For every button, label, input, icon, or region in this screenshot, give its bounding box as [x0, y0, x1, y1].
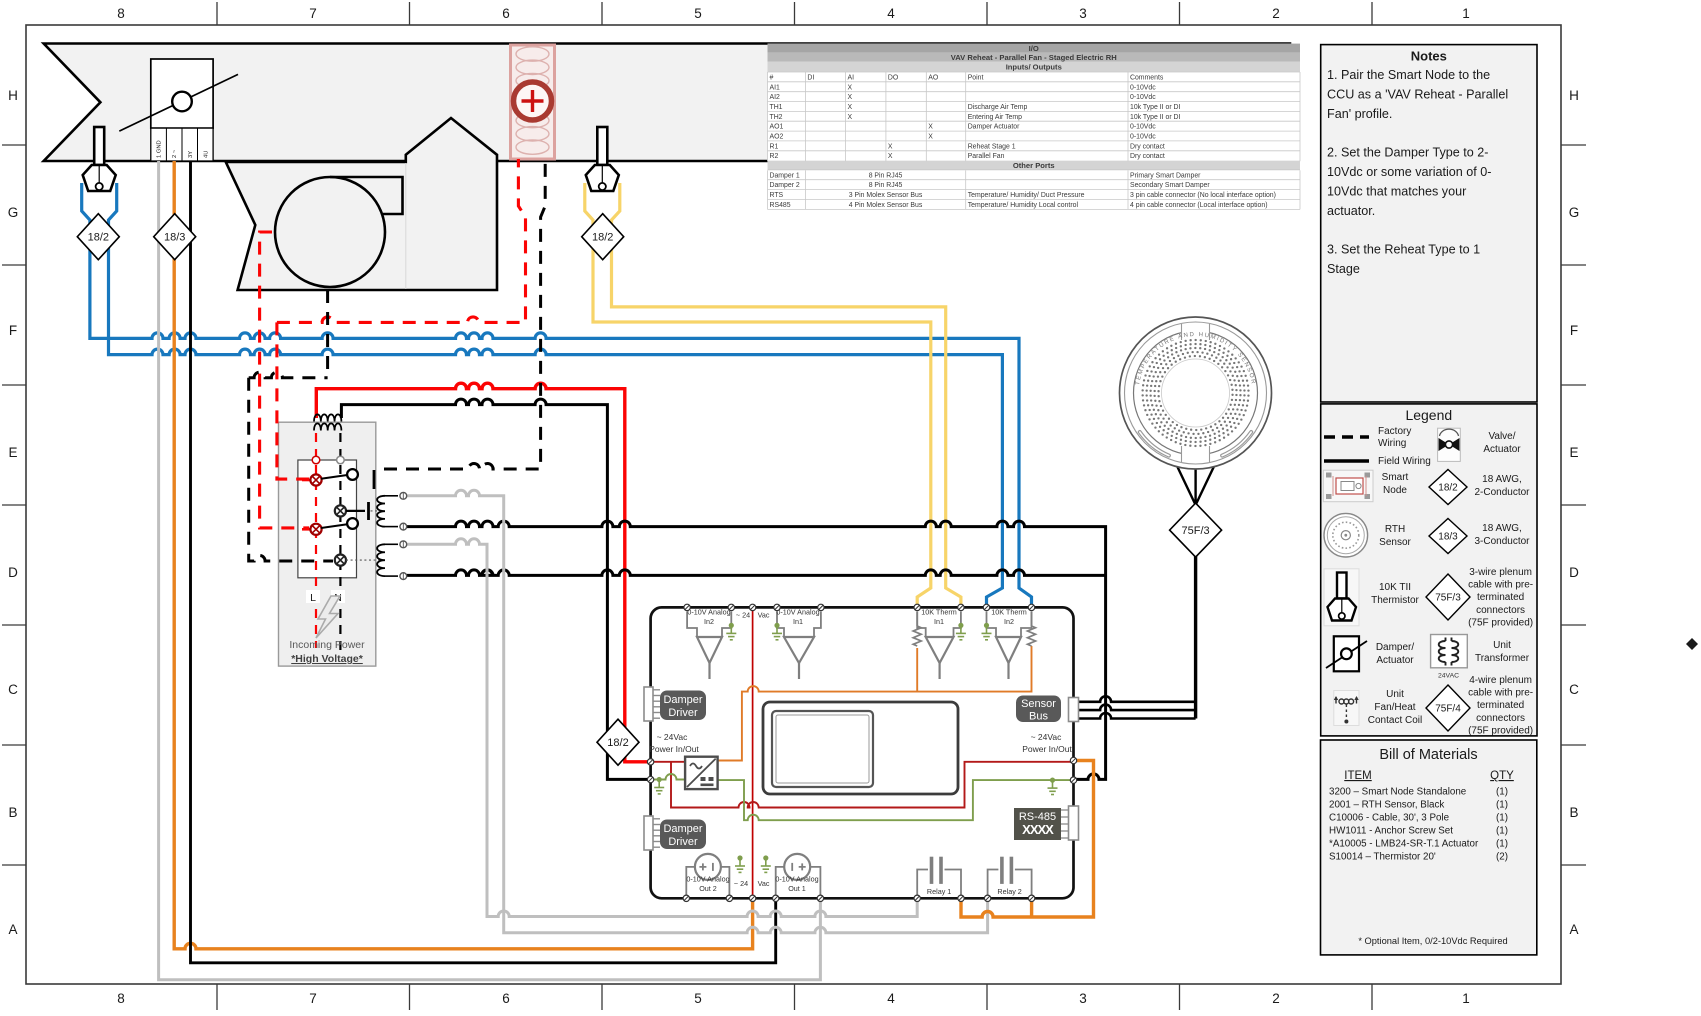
- svg-text:10Vdc that matches your: 10Vdc that matches your: [1327, 184, 1466, 198]
- svg-text:QTY: QTY: [1490, 770, 1514, 782]
- svg-text:1: 1: [1462, 6, 1470, 21]
- svg-text:2: 2: [1272, 6, 1280, 21]
- svg-text:4-wire plenum: 4-wire plenum: [1469, 675, 1532, 686]
- svg-text:AI1: AI1: [770, 84, 781, 91]
- svg-text:Contact Coil: Contact Coil: [1368, 715, 1422, 726]
- svg-text:Relay 2: Relay 2: [997, 887, 1021, 896]
- svg-text:Primary Smart Damper: Primary Smart Damper: [1130, 172, 1201, 179]
- svg-text:ITEM: ITEM: [1344, 770, 1371, 782]
- svg-text:75F/3: 75F/3: [1435, 593, 1461, 604]
- svg-text:(2): (2): [1496, 852, 1508, 863]
- svg-text:Bill of Materials: Bill of Materials: [1379, 747, 1477, 763]
- svg-text:10K TII: 10K TII: [1379, 582, 1411, 593]
- svg-text:10k Type II or DI: 10k Type II or DI: [1130, 114, 1181, 121]
- svg-text:18 AWG,: 18 AWG,: [1482, 523, 1522, 534]
- svg-text:10Vdc or some variation of 0-: 10Vdc or some variation of 0-: [1327, 165, 1492, 179]
- svg-text:*A10005 - LMB24-SR-T.1 Actuato: *A10005 - LMB24-SR-T.1 Actuator: [1329, 839, 1479, 850]
- svg-text:(75F provided): (75F provided): [1468, 725, 1533, 736]
- svg-text:CCU as a 'VAV Reheat - Paralle: CCU as a 'VAV Reheat - Parallel: [1327, 87, 1508, 101]
- svg-text:3-Conductor: 3-Conductor: [1474, 536, 1530, 547]
- svg-text:Actuator: Actuator: [1483, 444, 1521, 455]
- svg-text:R2: R2: [770, 153, 779, 160]
- svg-text:G: G: [8, 205, 19, 220]
- svg-text:In1: In1: [934, 617, 944, 626]
- svg-text:DO: DO: [888, 74, 899, 81]
- svg-text:#: #: [770, 74, 774, 81]
- svg-text:10k Type II or DI: 10k Type II or DI: [1130, 104, 1181, 111]
- svg-text:Point: Point: [968, 74, 984, 81]
- svg-text:F: F: [1570, 323, 1578, 338]
- svg-text:cable with pre-: cable with pre-: [1468, 688, 1533, 699]
- svg-text:Relay 1: Relay 1: [927, 887, 951, 896]
- svg-text:E: E: [8, 445, 17, 460]
- svg-text:8: 8: [117, 991, 125, 1006]
- svg-text:4 Pin Molex Sensor Bus: 4 Pin Molex Sensor Bus: [849, 202, 923, 209]
- svg-text:6: 6: [502, 6, 510, 21]
- svg-text:B: B: [1569, 805, 1578, 820]
- svg-text:Factory: Factory: [1378, 426, 1411, 437]
- svg-text:0-10V Analog: 0-10V Analog: [687, 608, 730, 617]
- svg-text:Damper: Damper: [663, 694, 702, 706]
- svg-text:18 AWG,: 18 AWG,: [1482, 474, 1522, 485]
- svg-text:Actuator: Actuator: [1376, 655, 1414, 666]
- svg-text:~ 24Vac: ~ 24Vac: [657, 732, 689, 742]
- svg-text:Node: Node: [1383, 485, 1407, 496]
- svg-text:Temperature/ Humidity/ Duct Pr: Temperature/ Humidity/ Duct Pressure: [968, 192, 1085, 199]
- svg-text:Incoming Power: Incoming Power: [289, 639, 365, 651]
- svg-text:RTS: RTS: [770, 192, 784, 199]
- svg-text:18/2: 18/2: [88, 232, 109, 244]
- svg-text:7: 7: [309, 6, 317, 21]
- svg-text:C: C: [1569, 682, 1579, 697]
- svg-text:In2: In2: [1004, 617, 1014, 626]
- svg-text:8 Pin RJ45: 8 Pin RJ45: [869, 172, 903, 179]
- svg-text:Secondary Smart Damper: Secondary Smart Damper: [1130, 182, 1210, 189]
- svg-text:Dry contact: Dry contact: [1130, 143, 1165, 150]
- svg-text:Vac: Vac: [758, 879, 770, 888]
- svg-text:AI2: AI2: [770, 94, 781, 101]
- svg-text:connectors: connectors: [1476, 713, 1525, 724]
- svg-text:TH2: TH2: [770, 114, 783, 121]
- svg-text:C: C: [8, 682, 18, 697]
- svg-text:X: X: [928, 124, 933, 131]
- svg-text:0-10Vdc: 0-10Vdc: [1130, 94, 1156, 101]
- svg-text:3 pin cable connector (No loca: 3 pin cable connector (No local interfac…: [1130, 192, 1276, 199]
- svg-text:AI: AI: [848, 74, 855, 81]
- svg-text:X: X: [848, 114, 853, 121]
- svg-text:Driver: Driver: [668, 707, 698, 719]
- svg-text:24VAC: 24VAC: [1438, 673, 1459, 680]
- svg-text:0-10Vdc: 0-10Vdc: [1130, 84, 1156, 91]
- svg-text:8: 8: [117, 6, 125, 21]
- svg-text:I/O: I/O: [1029, 44, 1039, 53]
- svg-text:Dry contact: Dry contact: [1130, 153, 1165, 160]
- svg-text:Damper/: Damper/: [1376, 642, 1415, 653]
- svg-text:Damper Actuator: Damper Actuator: [968, 124, 1020, 131]
- svg-text:S10014 – Thermistor 20': S10014 – Thermistor 20': [1329, 852, 1436, 863]
- svg-text:E: E: [1569, 445, 1578, 460]
- svg-text:AO2: AO2: [770, 134, 784, 141]
- svg-text:2: 2: [1272, 991, 1280, 1006]
- svg-text:A: A: [1569, 922, 1578, 937]
- svg-text:B: B: [8, 805, 17, 820]
- svg-text:terminated: terminated: [1477, 592, 1524, 603]
- svg-text:75F/3: 75F/3: [1182, 525, 1210, 537]
- svg-text:~ 24: ~ 24: [736, 611, 750, 620]
- svg-text:0-10Vdc: 0-10Vdc: [1130, 134, 1156, 141]
- svg-text:18/3: 18/3: [164, 232, 185, 244]
- svg-text:H: H: [8, 88, 18, 103]
- svg-text:3-wire plenum: 3-wire plenum: [1469, 567, 1532, 578]
- svg-text:18/2: 18/2: [607, 737, 628, 749]
- svg-text:3: 3: [1079, 6, 1087, 21]
- svg-text:3. Set the Reheat Type to 1: 3. Set the Reheat Type to 1: [1327, 243, 1480, 257]
- svg-text:(1): (1): [1496, 787, 1508, 798]
- svg-text:cable with pre-: cable with pre-: [1468, 580, 1533, 591]
- svg-text:terminated: terminated: [1477, 700, 1524, 711]
- svg-text:Vac: Vac: [758, 611, 770, 620]
- svg-text:X: X: [888, 153, 893, 160]
- svg-text:RS485: RS485: [770, 202, 791, 209]
- svg-text:connectors: connectors: [1476, 605, 1525, 616]
- svg-text:3200 – Smart Node Standalone: 3200 – Smart Node Standalone: [1329, 787, 1467, 798]
- svg-text:Power In/Out: Power In/Out: [1022, 744, 1072, 754]
- svg-text:Entering Air Temp: Entering Air Temp: [968, 114, 1022, 121]
- svg-text:Fan/Heat: Fan/Heat: [1374, 702, 1415, 713]
- svg-text:(1): (1): [1496, 839, 1508, 850]
- svg-text:VAV Reheat - Parallel Fan - St: VAV Reheat - Parallel Fan - Staged Elect…: [951, 53, 1117, 62]
- svg-text:X: X: [848, 94, 853, 101]
- svg-text:10K Therm: 10K Therm: [921, 608, 956, 617]
- svg-text:Driver: Driver: [668, 836, 698, 848]
- svg-text:Legend: Legend: [1405, 407, 1452, 423]
- svg-text:0-10V Analog: 0-10V Analog: [776, 608, 819, 617]
- svg-text:Inputs/ Outputs: Inputs/ Outputs: [1006, 63, 1062, 72]
- svg-text:3Y: 3Y: [188, 151, 194, 158]
- svg-text:Unit: Unit: [1386, 689, 1404, 700]
- svg-text:X: X: [928, 134, 933, 141]
- svg-text:Damper 2: Damper 2: [770, 182, 800, 189]
- svg-text:* Optional Item, 0/2-10Vdc Req: * Optional Item, 0/2-10Vdc Required: [1358, 936, 1507, 946]
- svg-text:Damper 1: Damper 1: [770, 172, 800, 179]
- svg-text:actuator.: actuator.: [1327, 204, 1375, 218]
- svg-text:2 ~: 2 ~: [172, 149, 178, 158]
- svg-text:(75F provided): (75F provided): [1468, 617, 1533, 628]
- svg-text:D: D: [8, 565, 18, 580]
- svg-text:Thermistor: Thermistor: [1371, 595, 1419, 606]
- svg-text:Reheat Stage 1: Reheat Stage 1: [968, 143, 1016, 150]
- svg-text:F: F: [9, 323, 17, 338]
- svg-text:Valve/: Valve/: [1488, 431, 1515, 442]
- svg-text:L: L: [310, 592, 316, 604]
- svg-text:AO1: AO1: [770, 124, 784, 131]
- svg-text:Discharge Air Temp: Discharge Air Temp: [968, 104, 1028, 111]
- svg-text:D: D: [1569, 565, 1579, 580]
- svg-text:4 pin cable connector (Local i: 4 pin cable connector (Local interface o…: [1130, 202, 1268, 209]
- svg-text:X: X: [848, 84, 853, 91]
- svg-text:2-Conductor: 2-Conductor: [1474, 487, 1530, 498]
- svg-text:4: 4: [887, 6, 895, 21]
- svg-text:18/2: 18/2: [1438, 483, 1458, 494]
- svg-text:5: 5: [694, 6, 702, 21]
- svg-text:8 Pin RJ45: 8 Pin RJ45: [869, 182, 903, 189]
- svg-text:Bus: Bus: [1029, 711, 1048, 723]
- svg-text:Wiring: Wiring: [1378, 438, 1406, 449]
- svg-text:4: 4: [887, 991, 895, 1006]
- svg-text:10K Therm: 10K Therm: [991, 608, 1026, 617]
- svg-text:Transformer: Transformer: [1475, 653, 1530, 664]
- svg-text:0-10V Analog: 0-10V Analog: [775, 875, 818, 884]
- svg-text:1 GND: 1 GND: [157, 140, 163, 158]
- svg-text:~ 24: ~ 24: [734, 879, 748, 888]
- svg-text:6: 6: [502, 991, 510, 1006]
- svg-text:XXXX: XXXX: [1022, 822, 1054, 837]
- svg-text:A: A: [8, 922, 17, 937]
- svg-text:18/3: 18/3: [1438, 532, 1458, 543]
- svg-text:0-10Vdc: 0-10Vdc: [1130, 124, 1156, 131]
- svg-text:C10006 - Cable, 30', 3 Pole: C10006 - Cable, 30', 3 Pole: [1329, 813, 1450, 824]
- svg-text:7: 7: [309, 991, 317, 1006]
- svg-text:1. Pair the Smart Node to the: 1. Pair the Smart Node to the: [1327, 68, 1490, 82]
- svg-text:H: H: [1569, 88, 1579, 103]
- svg-text:*High Voltage*: *High Voltage*: [291, 653, 363, 665]
- svg-text:1: 1: [1462, 991, 1470, 1006]
- svg-text:Out 2: Out 2: [699, 884, 717, 893]
- svg-text:Stage: Stage: [1327, 262, 1360, 276]
- svg-text:75F/4: 75F/4: [1435, 704, 1461, 715]
- svg-text:Field Wiring: Field Wiring: [1378, 456, 1431, 467]
- svg-text:2001 – RTH Sensor, Black: 2001 – RTH Sensor, Black: [1329, 800, 1444, 811]
- svg-text:3: 3: [1079, 991, 1087, 1006]
- svg-text:(1): (1): [1496, 813, 1508, 824]
- svg-text:~ 24Vac: ~ 24Vac: [1031, 732, 1063, 742]
- svg-text:Temperature/ Humidity Local co: Temperature/ Humidity Local control: [968, 202, 1079, 209]
- svg-text:Notes: Notes: [1411, 49, 1447, 64]
- svg-text:RTH: RTH: [1385, 524, 1405, 535]
- svg-text:Sensor: Sensor: [1021, 698, 1056, 710]
- svg-text:AO: AO: [928, 74, 939, 81]
- svg-text:3 Pin Molex Sensor Bus: 3 Pin Molex Sensor Bus: [849, 192, 923, 199]
- svg-text:G: G: [1569, 205, 1580, 220]
- svg-text:5: 5: [694, 991, 702, 1006]
- svg-text:Out 1: Out 1: [788, 884, 806, 893]
- svg-text:4U: 4U: [203, 151, 209, 158]
- svg-text:DI: DI: [807, 74, 814, 81]
- svg-text:In2: In2: [704, 617, 714, 626]
- svg-text:Sensor: Sensor: [1379, 537, 1411, 548]
- svg-text:R1: R1: [770, 143, 779, 150]
- svg-text:Power In/Out: Power In/Out: [649, 744, 699, 754]
- svg-text:X: X: [888, 143, 893, 150]
- svg-text:Damper: Damper: [663, 823, 702, 835]
- svg-text:HW1011 - Anchor Screw Set: HW1011 - Anchor Screw Set: [1329, 826, 1453, 837]
- svg-text:(1): (1): [1496, 826, 1508, 837]
- svg-text:2. Set the Damper Type to 2-: 2. Set the Damper Type to 2-: [1327, 146, 1488, 160]
- svg-text:Fan' profile.: Fan' profile.: [1327, 107, 1392, 121]
- svg-text:18/2: 18/2: [592, 232, 613, 244]
- svg-text:Parallel Fan: Parallel Fan: [968, 153, 1005, 160]
- svg-text:X: X: [848, 104, 853, 111]
- svg-text:Smart: Smart: [1382, 472, 1409, 483]
- svg-text:In1: In1: [793, 617, 803, 626]
- svg-text:Comments: Comments: [1130, 74, 1164, 81]
- svg-text:TH1: TH1: [770, 104, 783, 111]
- svg-text:0-10V Analog: 0-10V Analog: [686, 875, 729, 884]
- svg-text:(1): (1): [1496, 800, 1508, 811]
- svg-text:Other Ports: Other Ports: [1013, 161, 1055, 170]
- svg-text:Unit: Unit: [1493, 640, 1511, 651]
